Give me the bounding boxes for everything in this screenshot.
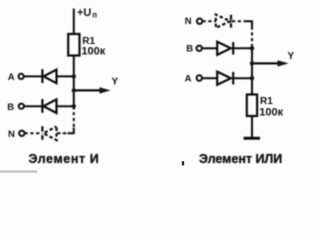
svg-text:Элемент И: Элемент И — [29, 152, 100, 166]
svg-text:Y: Y — [112, 77, 119, 88]
svg-text:A: A — [185, 74, 192, 85]
svg-text:B: B — [186, 44, 193, 55]
svg-text:R1: R1 — [260, 96, 273, 107]
svg-text:B: B — [7, 102, 14, 113]
svg-text:п: п — [92, 11, 97, 20]
svg-text:N: N — [8, 129, 15, 140]
svg-text:Y: Y — [288, 51, 295, 62]
svg-text:100к: 100к — [259, 107, 283, 119]
svg-text:A: A — [8, 72, 15, 83]
svg-text:Элемент ИЛИ: Элемент ИЛИ — [199, 152, 282, 166]
svg-text:N: N — [185, 16, 192, 27]
svg-text:100к: 100к — [81, 46, 105, 58]
svg-text:+U: +U — [77, 7, 91, 19]
